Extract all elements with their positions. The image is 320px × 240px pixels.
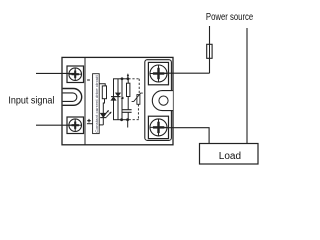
opto coupling arrows	[104, 110, 111, 117]
LED D1	[100, 113, 106, 125]
wire LED to box	[99, 124, 103, 126]
node minus	[87, 79, 90, 81]
wire power source right drop	[246, 28, 248, 144]
load box	[200, 144, 259, 165]
wire separator left	[84, 57, 86, 144]
wire terminal to fuse	[160, 72, 210, 74]
wire input top	[36, 72, 75, 74]
indicator hole	[159, 96, 168, 105]
junction dot top A	[121, 77, 124, 80]
junction dot bottom A	[120, 118, 123, 121]
gate arrow	[121, 97, 124, 100]
wire power source drop	[209, 26, 211, 73]
terminal screw bottom-left	[67, 117, 84, 134]
junction dot top B	[127, 77, 130, 80]
wire gate stub	[127, 74, 129, 79]
terminal block right	[145, 60, 172, 141]
phototriac diode down	[116, 93, 121, 96]
wire box to R1	[99, 84, 105, 86]
dashed link varistor	[128, 79, 139, 120]
terminal screw top-left	[67, 66, 84, 83]
svg-text:Constant current drive circuit: Constant current drive circuit	[95, 74, 99, 133]
block U1 constant current drive circuit	[93, 74, 100, 134]
wire output top rail	[113, 78, 128, 80]
relay body	[62, 57, 173, 144]
phototriac right side	[117, 79, 119, 120]
wire terminal to load	[161, 128, 209, 144]
junction dot bottom B	[126, 118, 129, 121]
svg-text:Load: Load	[219, 151, 241, 162]
wire C1 to rail	[127, 112, 129, 119]
terminal screw bottom-right	[148, 116, 168, 138]
phototriac left side	[113, 79, 115, 120]
wire R1 to LED	[103, 99, 104, 114]
svg-text:Input signal: Input signal	[8, 95, 54, 107]
node plus	[87, 119, 91, 123]
wire output bottom rail	[113, 119, 128, 121]
varistor RV1	[132, 93, 143, 104]
indicator D-shape	[152, 91, 173, 111]
svg-text:Power source: Power source	[206, 11, 253, 22]
resistor R2	[127, 83, 130, 96]
capacitor C1	[123, 110, 132, 113]
wire input bottom	[36, 124, 75, 126]
mounting notch inner U	[63, 93, 77, 102]
resistor R1	[102, 86, 106, 99]
wire snubber branch top	[127, 79, 129, 83]
phototriac middle bar	[111, 96, 121, 98]
wire R2 to C1	[127, 97, 129, 110]
mounting notch outer U	[63, 89, 82, 106]
wire gate branch	[121, 79, 123, 120]
wire output stub bottom	[127, 120, 129, 128]
wire box input bottom	[87, 123, 93, 125]
terminal screw top-right	[148, 62, 168, 84]
fuse F1	[207, 44, 212, 58]
phototriac diode up	[111, 97, 116, 100]
